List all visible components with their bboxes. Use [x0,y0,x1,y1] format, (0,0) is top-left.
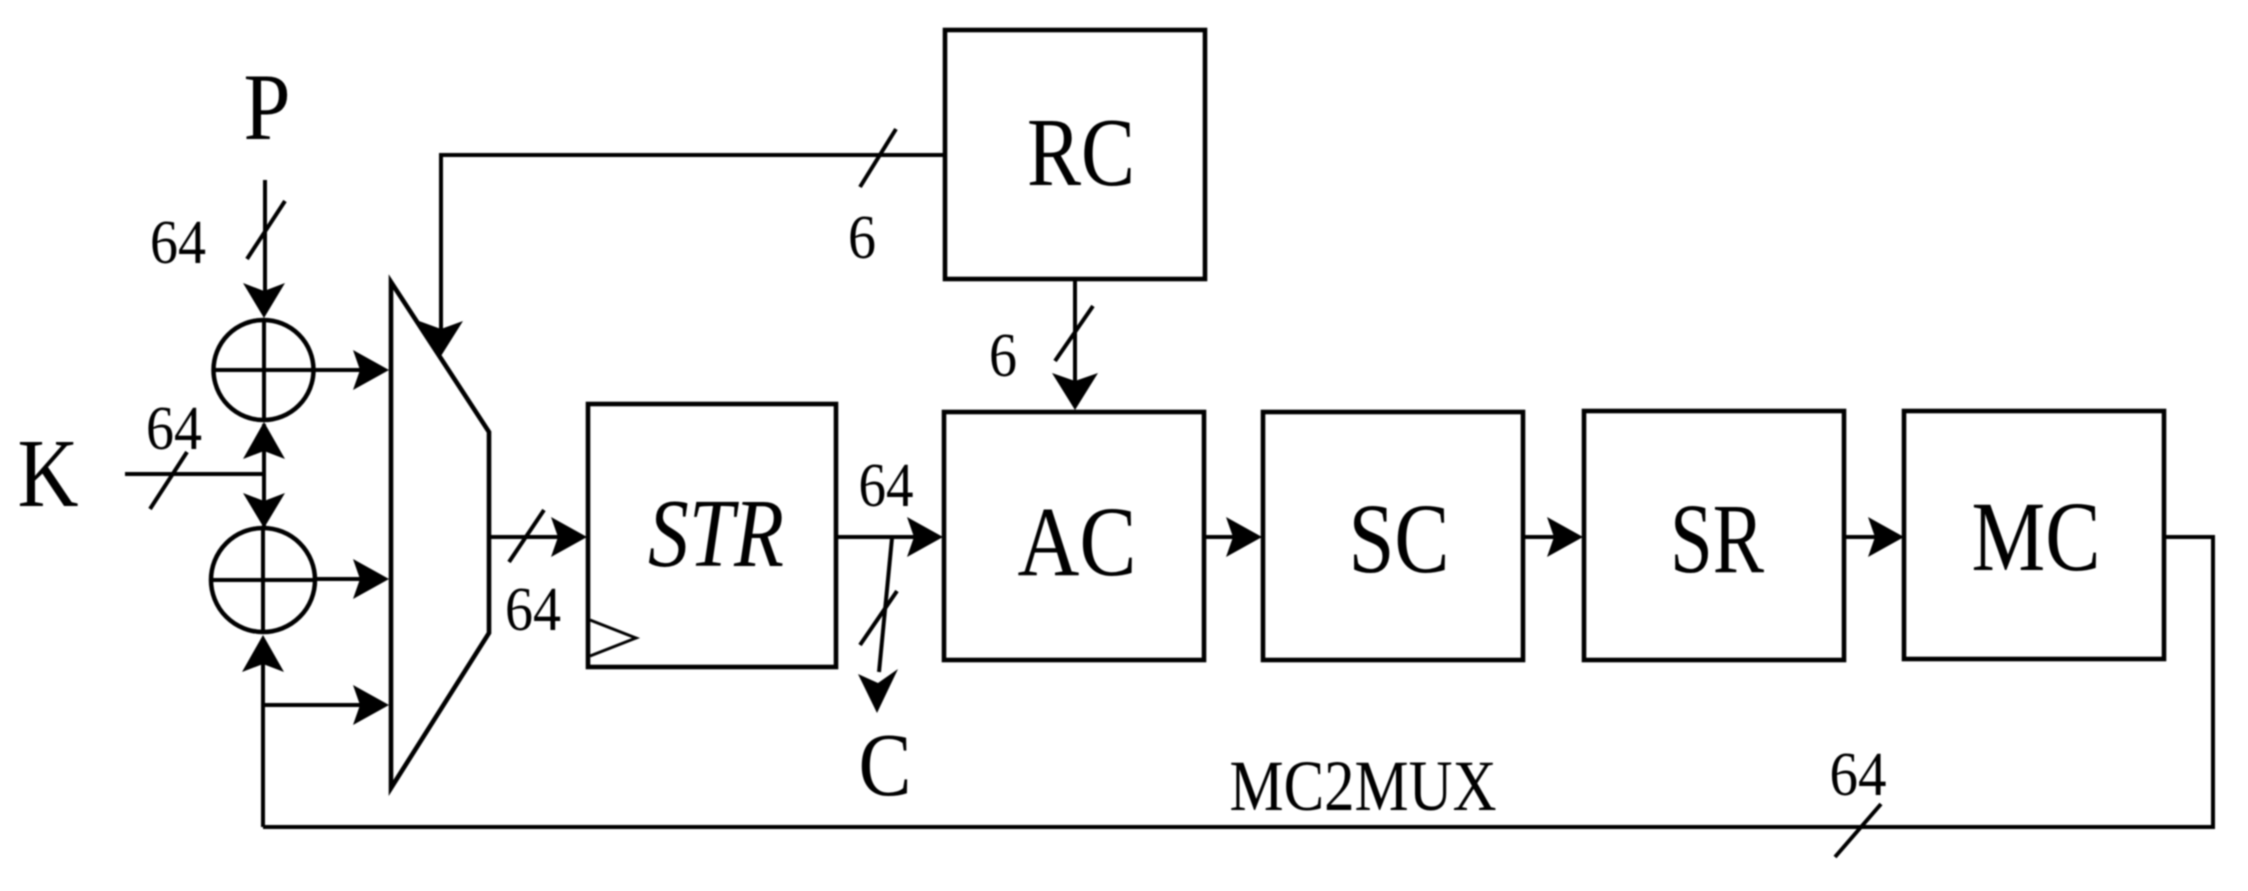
wire RC to mux top horizontal [441,155,945,330]
svg-text:6: 6 [848,204,876,272]
svg-text:P: P [244,54,291,160]
arrowhead into SR [1547,517,1583,557]
svg-text:K: K [18,420,79,528]
arrowhead C output down [858,669,898,713]
arrowhead into SC [1226,517,1262,557]
svg-text:64: 64 [150,209,206,277]
bus slash RC-AC [1055,306,1093,361]
bus slash RC-mux [860,129,896,187]
bus slash P [247,201,285,259]
multiplexer MUX trapezoid [391,282,489,788]
arrowhead up into XOR1 bottom [243,422,285,459]
svg-text:STR: STR [648,480,784,587]
bus slash K [150,452,187,509]
wire AC to SC [1204,535,1235,539]
arrowhead into AC left [907,517,943,557]
arrowhead mux select down [419,321,463,356]
clock triangle on STR [590,620,636,656]
wire mux output to STR [489,535,558,539]
wire RC output down to AC [1073,279,1077,385]
wire P input vertical [263,180,267,300]
svg-text:64: 64 [146,395,202,463]
wire SC to SR [1523,535,1556,539]
block STR register [588,404,836,667]
wire STR output to AC [836,535,915,539]
wire mux third input [263,703,360,707]
arrowhead into STR [551,517,587,557]
wire C branch down [879,538,892,672]
block MC [1904,411,2164,659]
wire K input horizontal [125,472,266,476]
arrowhead up into XOR2 bottom [242,635,284,672]
svg-text:SR: SR [1670,483,1764,594]
bus slash mux-STR [509,510,544,562]
block SC [1263,412,1523,660]
xor X1 cross horizontal [213,368,314,372]
arrowhead XOR1 output [353,350,389,390]
xor X2 cross vertical [261,528,265,632]
svg-text:RC: RC [1027,99,1135,207]
wire XOR2 output to mux [315,577,360,581]
arrowhead into AC top [1052,373,1098,410]
arrowhead XOR2 output [353,559,389,599]
svg-text:64: 64 [859,452,914,520]
wire MC output feedback [263,537,2213,827]
svg-text:64: 64 [1830,741,1887,809]
svg-text:MC2MUX: MC2MUX [1230,746,1497,826]
bus slash C branch [860,591,897,645]
xor X2 cross horizontal [211,578,315,582]
bus slash feedback [1835,804,1881,857]
arrowhead mux third input [353,685,389,725]
arrowhead into XOR1 top [243,283,285,318]
wire feedback left vertical [261,640,265,827]
arrowhead into MC [1868,517,1904,557]
svg-text:AC: AC [1018,486,1137,597]
svg-text:SC: SC [1349,483,1450,594]
svg-text:64: 64 [505,576,561,644]
wire SR to MC [1844,535,1877,539]
svg-text:C: C [859,716,912,815]
block RC [945,30,1205,279]
svg-text:MC: MC [1972,481,2101,592]
block AC [944,412,1204,660]
wire K junction vertical [262,424,266,526]
svg-text:6: 6 [989,322,1017,390]
xor gate X1 circle [214,320,314,420]
block SR [1584,411,1844,660]
xor gate X2 circle [211,528,315,632]
arrowhead down into XOR2 top [243,493,285,528]
wire XOR1 output to mux [314,368,360,372]
xor X1 cross vertical [262,320,266,420]
